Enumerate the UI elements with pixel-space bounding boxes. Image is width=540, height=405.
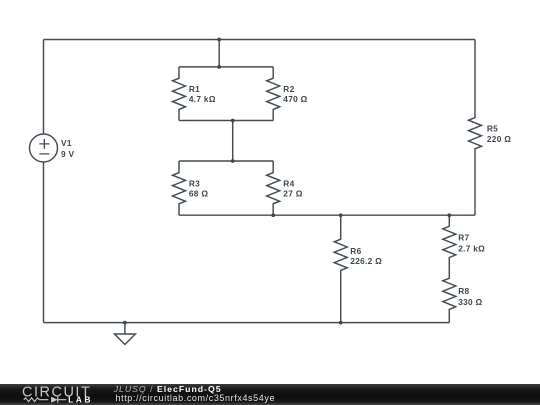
svg-text:226.2 Ω: 226.2 Ω	[350, 256, 382, 266]
svg-text:R2: R2	[283, 84, 294, 94]
svg-text:9 V: 9 V	[61, 149, 75, 159]
svg-text:R3: R3	[189, 178, 200, 188]
svg-text:R8: R8	[458, 286, 469, 296]
svg-text:R5: R5	[487, 123, 498, 133]
svg-text:470 Ω: 470 Ω	[283, 94, 307, 104]
svg-text:R7: R7	[458, 233, 469, 243]
svg-text:LAB: LAB	[68, 394, 93, 404]
svg-text:http://circuitlab.com/c35nrfx4: http://circuitlab.com/c35nrfx4s54ye	[116, 393, 276, 403]
svg-text:R1: R1	[189, 84, 200, 94]
svg-text:V1: V1	[61, 138, 72, 148]
svg-text:2.7 kΩ: 2.7 kΩ	[458, 243, 485, 253]
svg-text:68 Ω: 68 Ω	[189, 189, 208, 199]
svg-text:330 Ω: 330 Ω	[458, 297, 482, 307]
svg-text:27 Ω: 27 Ω	[283, 189, 302, 199]
svg-text:220 Ω: 220 Ω	[487, 134, 511, 144]
svg-text:R6: R6	[350, 246, 361, 256]
svg-text:4.7 kΩ: 4.7 kΩ	[189, 94, 216, 104]
svg-text:R4: R4	[283, 178, 294, 188]
